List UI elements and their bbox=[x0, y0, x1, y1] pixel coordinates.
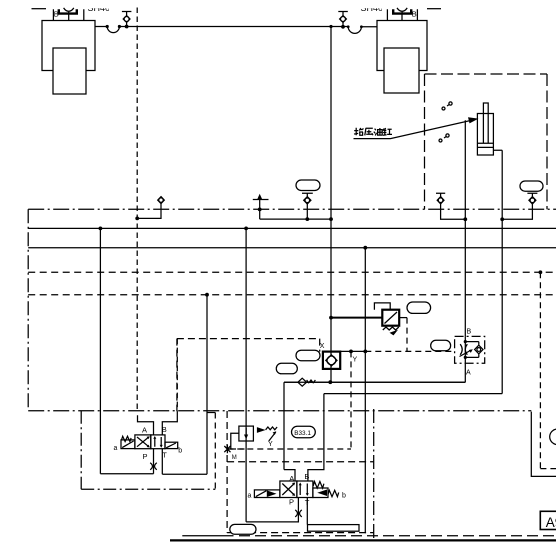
svg-text:Y: Y bbox=[353, 357, 358, 364]
svg-text:T: T bbox=[162, 450, 167, 459]
svg-text:b: b bbox=[342, 492, 346, 499]
svg-text:A: A bbox=[142, 426, 147, 435]
svg-text:P: P bbox=[289, 498, 294, 507]
svg-text:A9: A9 bbox=[546, 515, 556, 530]
svg-text:M: M bbox=[232, 455, 237, 461]
svg-text:P: P bbox=[143, 452, 148, 461]
svg-text:b: b bbox=[178, 447, 182, 454]
svg-text:a: a bbox=[248, 493, 252, 500]
svg-text:B: B bbox=[304, 472, 309, 481]
svg-text:X: X bbox=[320, 343, 325, 350]
svg-text:a: a bbox=[114, 445, 118, 452]
svg-text:B33.1: B33.1 bbox=[294, 430, 311, 437]
svg-text:A: A bbox=[289, 474, 294, 483]
svg-text:B: B bbox=[54, 10, 59, 19]
svg-text:Y: Y bbox=[268, 441, 273, 448]
svg-text:A: A bbox=[466, 370, 471, 377]
svg-text:B: B bbox=[162, 425, 167, 434]
svg-text:B: B bbox=[467, 329, 472, 336]
svg-text:B: B bbox=[412, 10, 417, 19]
